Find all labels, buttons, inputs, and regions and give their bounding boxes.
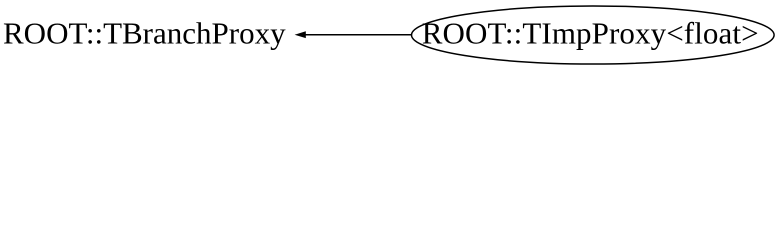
node ellipse ROOT::TImpProxy<float> [412,6,775,64]
wire inheritance edge shaft [304,34,412,36]
arrowhead pointing to ROOT::TBranchProxy [295,31,306,38]
svg-text:ROOT::TImpProxy<float>: ROOT::TImpProxy<float> [422,16,759,51]
svg-text:ROOT::TBranchProxy: ROOT::TBranchProxy [3,16,286,51]
